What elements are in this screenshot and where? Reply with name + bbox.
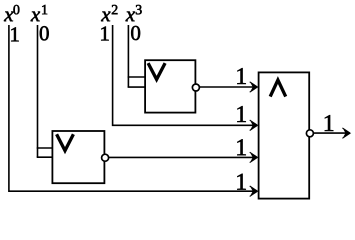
- OR gate U2 inverter bubble: [102, 154, 109, 161]
- wire from input x3 down to OR gate U1: [127, 25, 129, 87]
- arrowhead into AND gate input 4: [250, 186, 258, 196]
- OR gate U1 inverter bubble: [192, 84, 199, 91]
- signal label 1 on AND input 2: [237, 106, 245, 122]
- label x of input x3: [126, 12, 135, 22]
- value 0 on input x3: [131, 26, 140, 40]
- wire from input x1 down to OR gate U2: [37, 25, 39, 157]
- OR gate U2 body (inputs from x1): [52, 131, 104, 183]
- label x of input x2: [101, 12, 110, 22]
- signal label 1 on AND input 4: [237, 174, 245, 190]
- label superscript 3 of input x3: [136, 5, 142, 14]
- wire stub x1 to OR gate U2 pin 2: [37, 156, 53, 158]
- signal label 1 on AND input 3: [237, 139, 245, 155]
- signal label 1 on AND input 1: [237, 68, 245, 84]
- signal label 1 on output: [325, 115, 333, 131]
- value 0 on input x1: [40, 26, 49, 40]
- AND gate U3 conjunction wedge symbol: [270, 80, 286, 97]
- wire stub x3 to OR gate U1 pin 1: [128, 76, 146, 78]
- OR gate U2 disjunction V symbol: [57, 134, 74, 150]
- wire from OR gate U1 output to AND gate input 1: [200, 86, 257, 88]
- value 1 on input x2: [101, 27, 108, 41]
- label x of input x0: [4, 12, 13, 22]
- wire stub x1 to OR gate U2 pin 1: [37, 147, 53, 149]
- wire AND gate output: [314, 132, 349, 134]
- AND gate U3 inverter bubble: [306, 130, 313, 137]
- AND gate U3 body: [259, 72, 310, 198]
- label x of input x1: [31, 12, 40, 22]
- wire from input x0 down and right to AND gate input 4: [9, 25, 257, 191]
- label superscript 1 of input x1: [42, 5, 47, 14]
- wire from input x2 down and right to AND gate input 2: [113, 25, 257, 125]
- wire from OR gate U2 output to AND gate input 3: [109, 156, 257, 158]
- arrowhead into AND gate input 3: [250, 152, 258, 162]
- OR gate U1 disjunction V symbol: [148, 63, 165, 79]
- label superscript 2 of input x2: [112, 5, 118, 14]
- label superscript 0 of input x0: [13, 5, 19, 14]
- value 1 on input x0: [11, 27, 18, 41]
- arrowhead at circuit output: [342, 128, 350, 138]
- arrowhead into AND gate input 1: [250, 82, 258, 92]
- arrowhead into AND gate input 2: [250, 120, 258, 130]
- OR gate U1 body (inputs from x3): [145, 60, 195, 112]
- wire stub x3 to OR gate U1 pin 2: [128, 86, 146, 88]
